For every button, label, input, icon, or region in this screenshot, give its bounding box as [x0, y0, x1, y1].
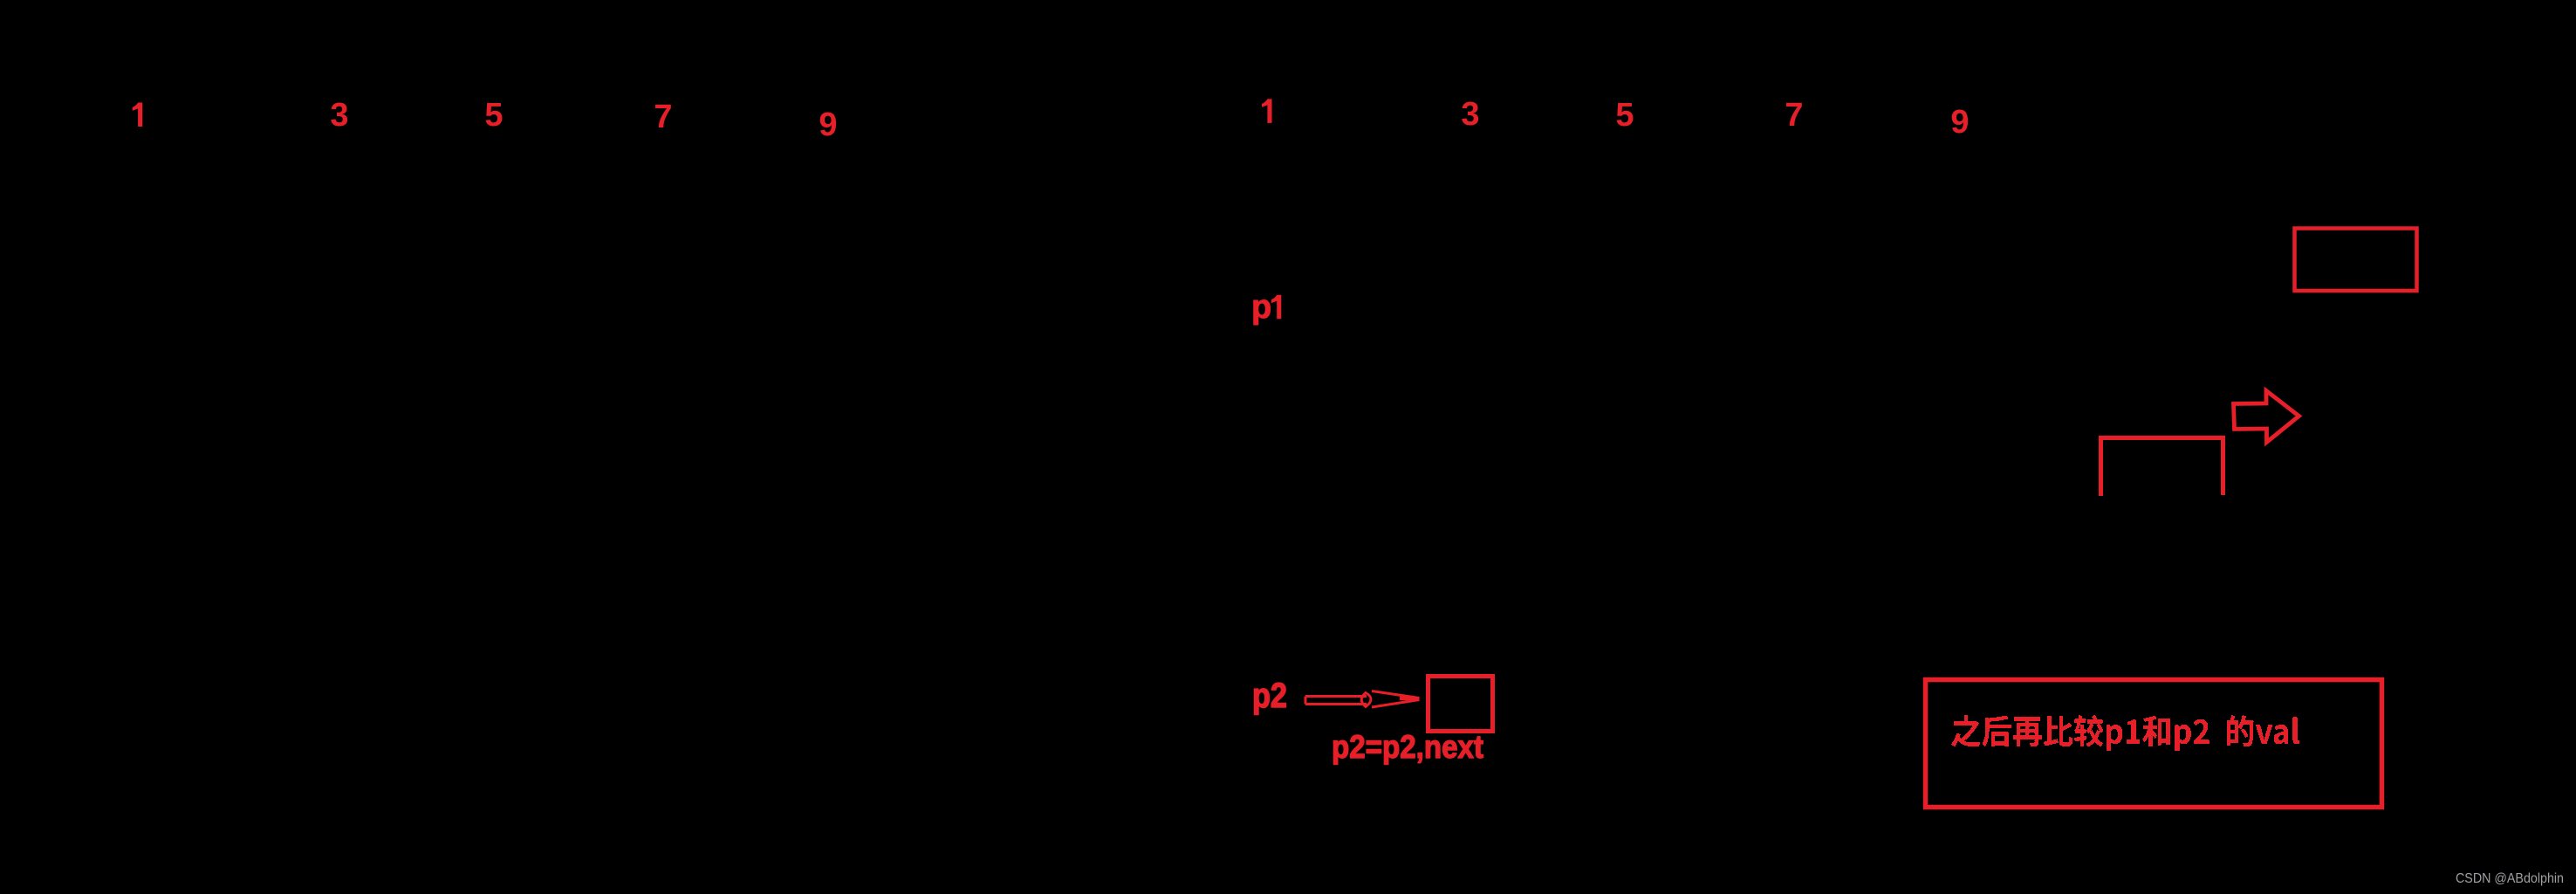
svg-text:9: 9: [819, 107, 837, 143]
svg-text:7: 7: [1785, 97, 1803, 134]
svg-text:7: 7: [654, 99, 672, 135]
svg-text:3: 3: [330, 97, 348, 134]
svg-text:p2=p2,next: p2=p2,next: [1332, 729, 1483, 765]
svg-text:3: 3: [1461, 96, 1479, 133]
svg-text:5: 5: [484, 97, 503, 134]
svg-text:p: p: [1251, 289, 1271, 326]
svg-text:9: 9: [1950, 104, 1969, 141]
svg-text:p2: p2: [1252, 677, 1287, 715]
svg-text:CSDN @ABdolphin: CSDN @ABdolphin: [2456, 871, 2564, 886]
svg-text:5: 5: [1615, 97, 1634, 134]
